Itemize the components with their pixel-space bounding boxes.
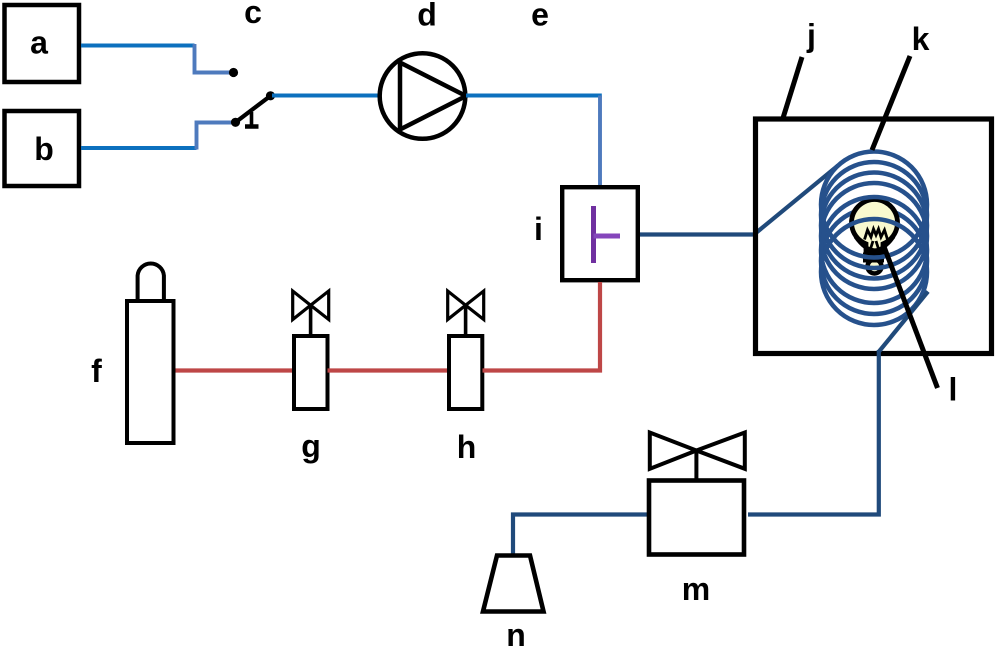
callout line k xyxy=(872,56,910,150)
wire chamber down to valve m (navy) xyxy=(748,350,879,515)
lamp l filament zigzag xyxy=(865,229,888,240)
cylinder f dome xyxy=(138,263,164,299)
wire diagonal into coil (navy) xyxy=(754,166,838,235)
switch c contact dot upper xyxy=(229,68,238,77)
chamber j box xyxy=(756,119,992,354)
svg-text:e: e xyxy=(531,0,549,33)
callout line l xyxy=(883,244,938,388)
wire i to chamber j (navy) xyxy=(640,232,755,236)
svg-text:n: n xyxy=(506,617,526,648)
wire switch to pump (blue) xyxy=(272,94,379,98)
valve h body xyxy=(449,336,482,409)
svg-text:i: i xyxy=(534,211,543,247)
cylinder f body xyxy=(127,301,174,443)
valve g body xyxy=(294,336,328,409)
red line h to mixer riser xyxy=(483,282,601,371)
mixer i tee horizontal (purple) xyxy=(594,234,621,239)
wire from a (blue horizontal) xyxy=(81,44,195,48)
wire e drop into mixer (light blue) xyxy=(598,96,602,187)
wire pump to corner (blue) xyxy=(466,94,602,98)
svg-text:g: g xyxy=(301,428,321,464)
svg-text:j: j xyxy=(806,18,816,54)
valve g bowtie xyxy=(293,291,329,320)
lamp l bulb glass xyxy=(852,200,898,253)
wire step b (light blue) xyxy=(197,123,234,150)
svg-text:k: k xyxy=(912,21,930,57)
wire from b (blue horizontal) xyxy=(81,146,197,150)
switch c support stem xyxy=(250,112,254,125)
lamp l filament legs xyxy=(870,241,880,252)
callout line j xyxy=(783,57,802,118)
svg-text:d: d xyxy=(417,0,437,33)
funnel n xyxy=(483,556,544,612)
svg-text:m: m xyxy=(682,571,710,607)
box b xyxy=(5,111,80,186)
valve m bowtie xyxy=(650,433,745,469)
switch c lever xyxy=(236,96,271,123)
mixer i tee vertical (purple) xyxy=(591,206,596,263)
svg-text:c: c xyxy=(244,0,262,30)
pump d circle xyxy=(380,53,466,139)
red line f to g xyxy=(176,368,295,372)
svg-text:h: h xyxy=(457,429,477,465)
valve m body xyxy=(649,481,744,555)
svg-text:b: b xyxy=(34,131,54,167)
lamp l base bar xyxy=(863,253,884,263)
mixer i box xyxy=(562,187,638,280)
valve g stem xyxy=(309,305,313,336)
coil k rear circle xyxy=(821,208,927,314)
wire coil outlet diagonal (navy) xyxy=(879,292,928,352)
coil k circles xyxy=(821,152,927,326)
lamp l bottom cap xyxy=(868,260,882,274)
switch c pivot dot xyxy=(266,91,275,100)
lamp l filament wings xyxy=(856,237,894,251)
wire valve m to funnel (navy) xyxy=(513,515,647,555)
switch c support foot xyxy=(245,124,259,129)
box a xyxy=(5,5,80,82)
switch c contact dot lower xyxy=(231,118,240,127)
valve m stem xyxy=(694,451,698,481)
svg-text:l: l xyxy=(949,372,958,408)
valve h stem xyxy=(464,305,468,336)
pump d triangle xyxy=(400,63,466,130)
wire step a (light blue) xyxy=(195,44,232,73)
valve h bowtie xyxy=(448,291,484,320)
red line g to h xyxy=(328,368,450,372)
svg-text:f: f xyxy=(91,353,102,389)
svg-text:a: a xyxy=(30,25,48,61)
